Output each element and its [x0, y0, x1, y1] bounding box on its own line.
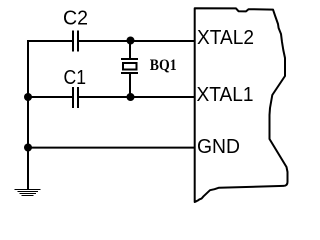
svg-text:BQ1: BQ1: [150, 55, 177, 74]
svg-text:C2: C2: [63, 8, 88, 30]
svg-text:GND: GND: [197, 136, 240, 158]
svg-text:XTAL1: XTAL1: [197, 84, 254, 106]
svg-text:C1: C1: [64, 67, 87, 89]
svg-text:XTAL2: XTAL2: [197, 27, 254, 49]
